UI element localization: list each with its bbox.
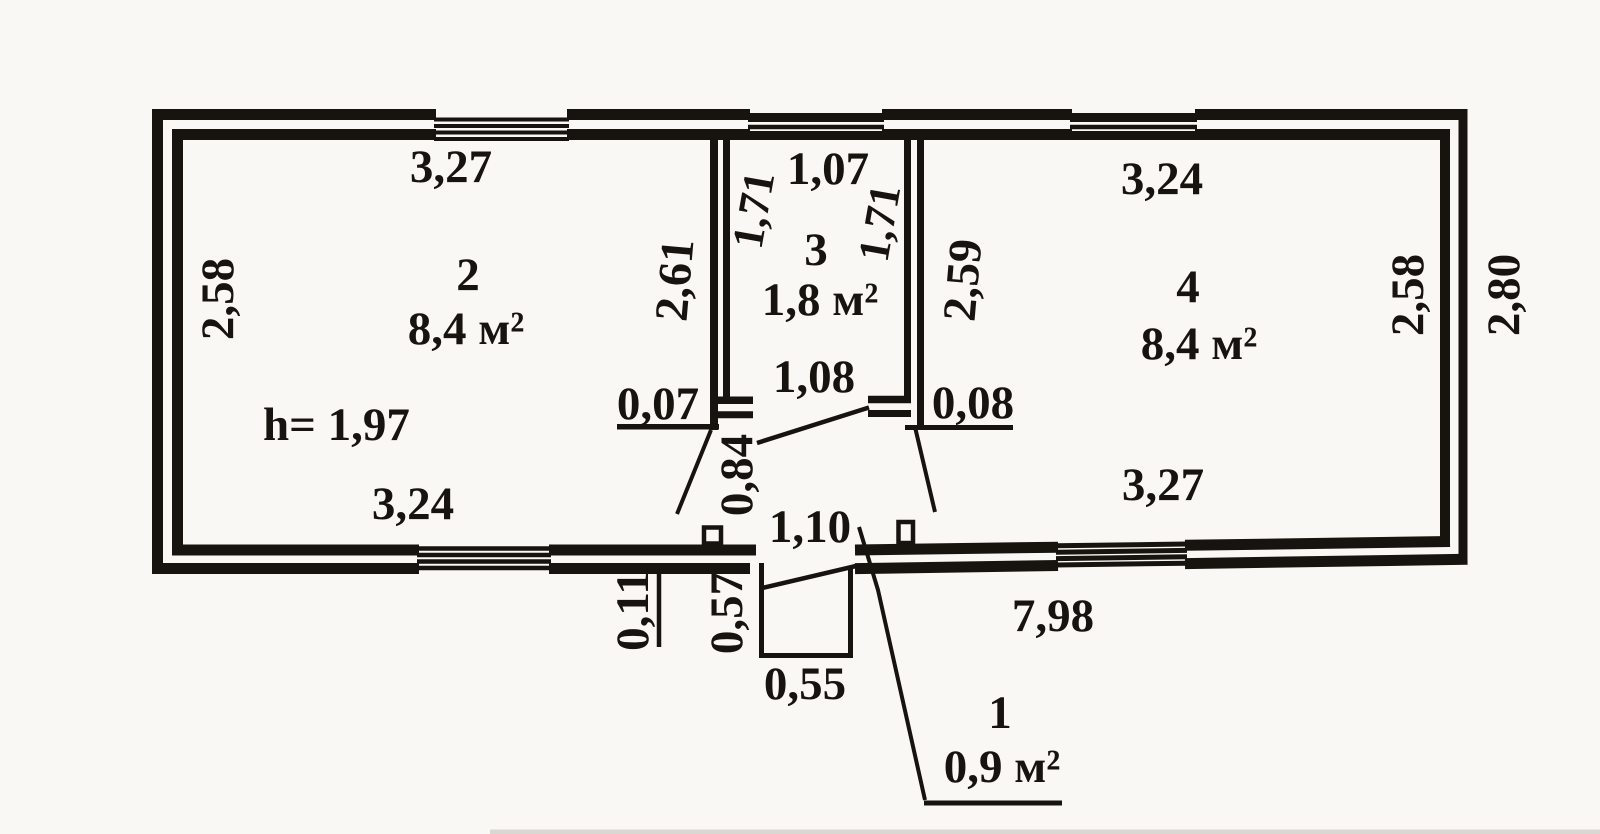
partition wall room2/room3 line B xyxy=(723,140,730,397)
door jamb room3 right upper bar xyxy=(868,396,911,404)
svg-text:0,55: 0,55 xyxy=(764,658,846,710)
svg-text:1,07: 1,07 xyxy=(787,143,869,195)
dimension underline 0,08 xyxy=(905,425,1013,430)
svg-text:1,8 м²: 1,8 м² xyxy=(762,274,879,326)
svg-text:2: 2 xyxy=(456,249,480,301)
svg-text:2,61: 2,61 xyxy=(646,237,705,323)
window W4 bottom wall hatch xyxy=(417,549,551,569)
svg-text:7,98: 7,98 xyxy=(1012,590,1094,642)
svg-text:3,27: 3,27 xyxy=(410,141,492,193)
inner wall right line xyxy=(1440,129,1450,546)
window W2 top wall hatch xyxy=(748,118,884,136)
inner wall top line xyxy=(172,129,1450,140)
porch right edge xyxy=(848,566,853,657)
inner wall bottom line xyxy=(172,542,1450,551)
window W3 top wall hatch xyxy=(1070,118,1197,136)
svg-text:1: 1 xyxy=(988,687,1012,739)
leader line room 1 xyxy=(859,527,925,800)
entrance door leaf xyxy=(760,566,856,589)
inner wall left line xyxy=(172,129,183,556)
svg-text:0,9 м²: 0,9 м² xyxy=(944,741,1061,793)
leader line right door xyxy=(915,427,935,512)
svg-text:3: 3 xyxy=(804,224,828,276)
svg-text:8,4 м²: 8,4 м² xyxy=(1141,318,1258,370)
svg-text:0,57: 0,57 xyxy=(701,572,753,654)
svg-text:3,24: 3,24 xyxy=(372,478,454,530)
partition wall room3/room4 line B xyxy=(917,140,924,430)
leader line 1,08 opening xyxy=(757,408,869,444)
door jamb room3 left upper bar xyxy=(718,396,753,404)
svg-text:0,11: 0,11 xyxy=(607,571,659,651)
scan artifact band bottom edge xyxy=(490,830,1600,834)
outer wall right line xyxy=(1459,110,1468,564)
svg-text:3,27: 3,27 xyxy=(1122,459,1204,511)
entrance door jamb bump right xyxy=(899,522,914,543)
svg-text:1,10: 1,10 xyxy=(769,501,851,553)
svg-text:2,80: 2,80 xyxy=(1478,254,1530,336)
outer wall top line xyxy=(152,109,1468,120)
svg-text:8,4 м²: 8,4 м² xyxy=(408,303,525,355)
entrance door jamb bump left xyxy=(704,528,721,544)
window W1 top wall hatch xyxy=(434,120,569,140)
svg-text:4: 4 xyxy=(1176,261,1200,313)
dimension underline 0,9 m2 xyxy=(924,801,1062,806)
door jamb room3 left lower bar xyxy=(718,411,753,418)
partition wall room2/room3 line A xyxy=(710,140,718,430)
svg-text:0,08: 0,08 xyxy=(932,377,1014,429)
svg-text:2,58: 2,58 xyxy=(192,258,244,340)
porch bottom edge xyxy=(759,653,853,658)
outer wall left line xyxy=(152,109,163,574)
door jamb room3 right lower bar xyxy=(868,410,911,417)
dimension underline 0,07 xyxy=(617,424,719,430)
partition wall room3/room4 line A xyxy=(904,140,911,397)
svg-text:h= 1,97: h= 1,97 xyxy=(263,399,410,451)
svg-text:0,07: 0,07 xyxy=(617,378,699,430)
window W5 bottom wall hatch xyxy=(1056,544,1187,565)
porch left edge xyxy=(759,563,764,657)
svg-text:3,24: 3,24 xyxy=(1121,153,1203,205)
svg-text:2,59: 2,59 xyxy=(934,237,993,323)
svg-text:1,08: 1,08 xyxy=(773,351,855,403)
svg-text:0,84: 0,84 xyxy=(711,434,763,516)
outer wall bottom line xyxy=(152,559,1468,568)
svg-text:2,58: 2,58 xyxy=(1382,254,1434,336)
leader line left door xyxy=(677,430,711,514)
dimension line 0,11 xyxy=(657,571,662,647)
